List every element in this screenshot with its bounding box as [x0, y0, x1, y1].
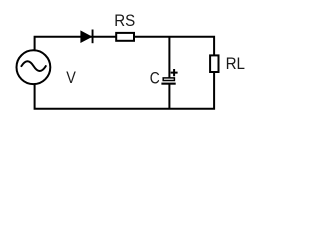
- resistor RL body: [210, 55, 218, 72]
- resistor RS body: [116, 33, 134, 41]
- capacitor plus sign: [171, 69, 178, 76]
- capacitor C bottom plate (solid): [161, 83, 175, 85]
- svg-text:RL: RL: [226, 55, 245, 73]
- wire capacitor bottom branch: [168, 84, 170, 108]
- diode D1 cathode bar: [92, 30, 94, 44]
- wire capacitor top branch: [168, 37, 170, 78]
- svg-text:C: C: [150, 70, 160, 88]
- wire bottom rail from source to RL: [35, 73, 215, 109]
- svg-text:V: V: [66, 69, 76, 87]
- diode D1 triangle: [80, 30, 92, 43]
- svg-text:RS: RS: [114, 12, 135, 30]
- wire top rail from source to RL corner: [35, 37, 215, 56]
- AC source sine wave: [21, 61, 45, 71]
- capacitor C top plate (hollow): [163, 78, 174, 81]
- AC source V circle: [17, 50, 51, 84]
